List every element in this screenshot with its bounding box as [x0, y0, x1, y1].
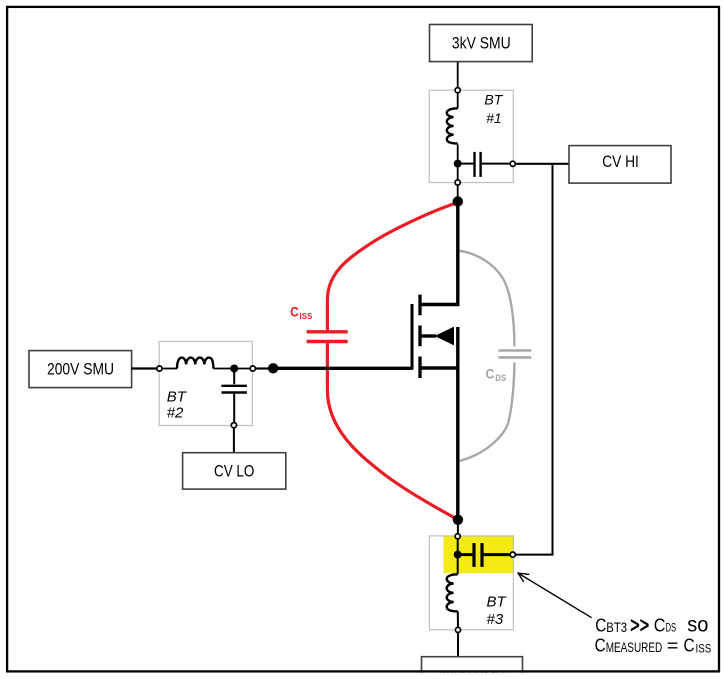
- node source-bottom (junction dot): [453, 515, 463, 525]
- inductor L3 (BT3): [447, 574, 458, 611]
- wire node to BT3: [457, 523, 459, 533]
- capacitor C3 (BT3) horizontal, bold: [458, 553, 473, 556]
- capacitor C1 (BT1) horizontal: [458, 163, 474, 165]
- junction dot BT1 cap: [454, 160, 462, 168]
- junction dot BT2: [230, 365, 238, 373]
- svg-text:BT3: BT3: [606, 620, 627, 635]
- svg-text:200V SMU: 200V SMU: [47, 360, 114, 378]
- svg-text:C: C: [290, 304, 299, 320]
- wire BT3 bottom to bottom SMU box: [457, 633, 459, 657]
- terminal BT2 right: [250, 366, 255, 371]
- wire inductor to junction to right terminal: [213, 368, 249, 370]
- wire BT2 bottom to CV LO: [233, 429, 235, 453]
- body line with arrow: [420, 334, 436, 337]
- channel source contact: [418, 357, 421, 379]
- wire inductor to bottom terminal: [457, 611, 459, 626]
- junction dot BT3 cap: [454, 551, 462, 559]
- svg-text:so: so: [687, 613, 708, 636]
- svg-text:#3: #3: [487, 611, 504, 628]
- capacitor CISS red plates: [307, 332, 348, 342]
- box CV LO: [183, 453, 286, 489]
- capacitor C2 (BT2) vertical: [233, 369, 235, 385]
- node gate-drain top (junction dot): [453, 196, 463, 206]
- svg-text:BT: BT: [487, 593, 508, 610]
- terminal BT3 top: [455, 534, 460, 539]
- svg-text:ISS: ISS: [300, 312, 313, 321]
- annotation arrow to BT3 cap: [519, 574, 592, 618]
- svg-text:#2: #2: [167, 405, 184, 422]
- wire inductor to cap junction to bottom terminal: [457, 145, 459, 180]
- svg-text:C: C: [595, 636, 606, 656]
- inductor L1 (BT1): [447, 108, 458, 143]
- svg-text:C: C: [654, 615, 666, 635]
- bias tee BT2 box: [159, 341, 252, 425]
- svg-text:MEASURED: MEASURED: [606, 640, 663, 655]
- svg-text:CV HI: CV HI: [602, 153, 639, 171]
- node gate wire: [268, 363, 278, 373]
- channel drain contact: [418, 295, 421, 316]
- terminal BT3 bottom: [455, 627, 460, 632]
- svg-text:3kV SMU: 3kV SMU: [452, 35, 511, 53]
- svg-text:DS: DS: [495, 373, 506, 383]
- capacitor CISS red coupling curve (gate to drain/source loop): [327, 203, 457, 520]
- body diode arrow: [435, 327, 454, 346]
- wire BT1 bottom to node: [457, 186, 459, 198]
- wire drain column (thick): [420, 202, 458, 305]
- wire cap junction down to inductor: [457, 555, 459, 575]
- channel body contact: [418, 326, 421, 347]
- wire 200V SMU to BT2: [132, 367, 157, 369]
- wire BT1 top terminal to inductor: [457, 94, 459, 109]
- box bottom SMU (cut off): [422, 657, 523, 679]
- wire BT2 right terminal to gate node: [256, 367, 269, 369]
- box 3kV SMU: [430, 25, 533, 62]
- capacitor CDS gray plates: [498, 351, 531, 358]
- wire CV HI: [516, 163, 569, 165]
- svg-text:=: =: [667, 636, 679, 656]
- svg-text:C: C: [486, 365, 495, 381]
- capacitor CDS gray coupling curve (drain to source): [458, 251, 515, 462]
- svg-text:#1: #1: [486, 110, 502, 126]
- svg-text:>>: >>: [630, 613, 649, 638]
- wire CV HI branch down to BT3 cap: [516, 164, 553, 555]
- box CV HI: [569, 146, 671, 184]
- highlight yellow on BT3 capacitor: [444, 536, 514, 573]
- wire 3kV SMU to BT1: [457, 62, 459, 88]
- svg-text:C: C: [684, 636, 695, 656]
- inductor L2 (BT2): [177, 358, 213, 369]
- gate plate: [411, 304, 414, 370]
- terminal BT1 right: [510, 161, 515, 166]
- terminal BT2 left: [157, 366, 162, 371]
- svg-text:C: C: [595, 615, 606, 635]
- terminal BT2 bottom: [231, 423, 236, 428]
- bias tee BT3 box: [429, 536, 513, 630]
- box 200V SMU: [29, 351, 132, 388]
- svg-text:BT: BT: [167, 389, 188, 406]
- terminal BT3 right: [510, 552, 515, 557]
- wire gate (thick): [273, 367, 411, 370]
- white mask below frame: [0, 673, 724, 679]
- svg-text:BT: BT: [484, 92, 503, 108]
- wire BT3 top terminal to cap junction: [457, 540, 459, 555]
- svg-text:ISS: ISS: [696, 643, 712, 655]
- terminal BT1 bottom: [455, 180, 460, 185]
- bias tee BT1 box: [429, 90, 513, 182]
- svg-text:CV LO: CV LO: [214, 463, 255, 481]
- wire source column (thick): [420, 366, 458, 369]
- terminal BT1 top: [455, 88, 460, 93]
- wire BT2 left terminal to inductor: [163, 368, 177, 370]
- svg-text:DS: DS: [666, 622, 677, 634]
